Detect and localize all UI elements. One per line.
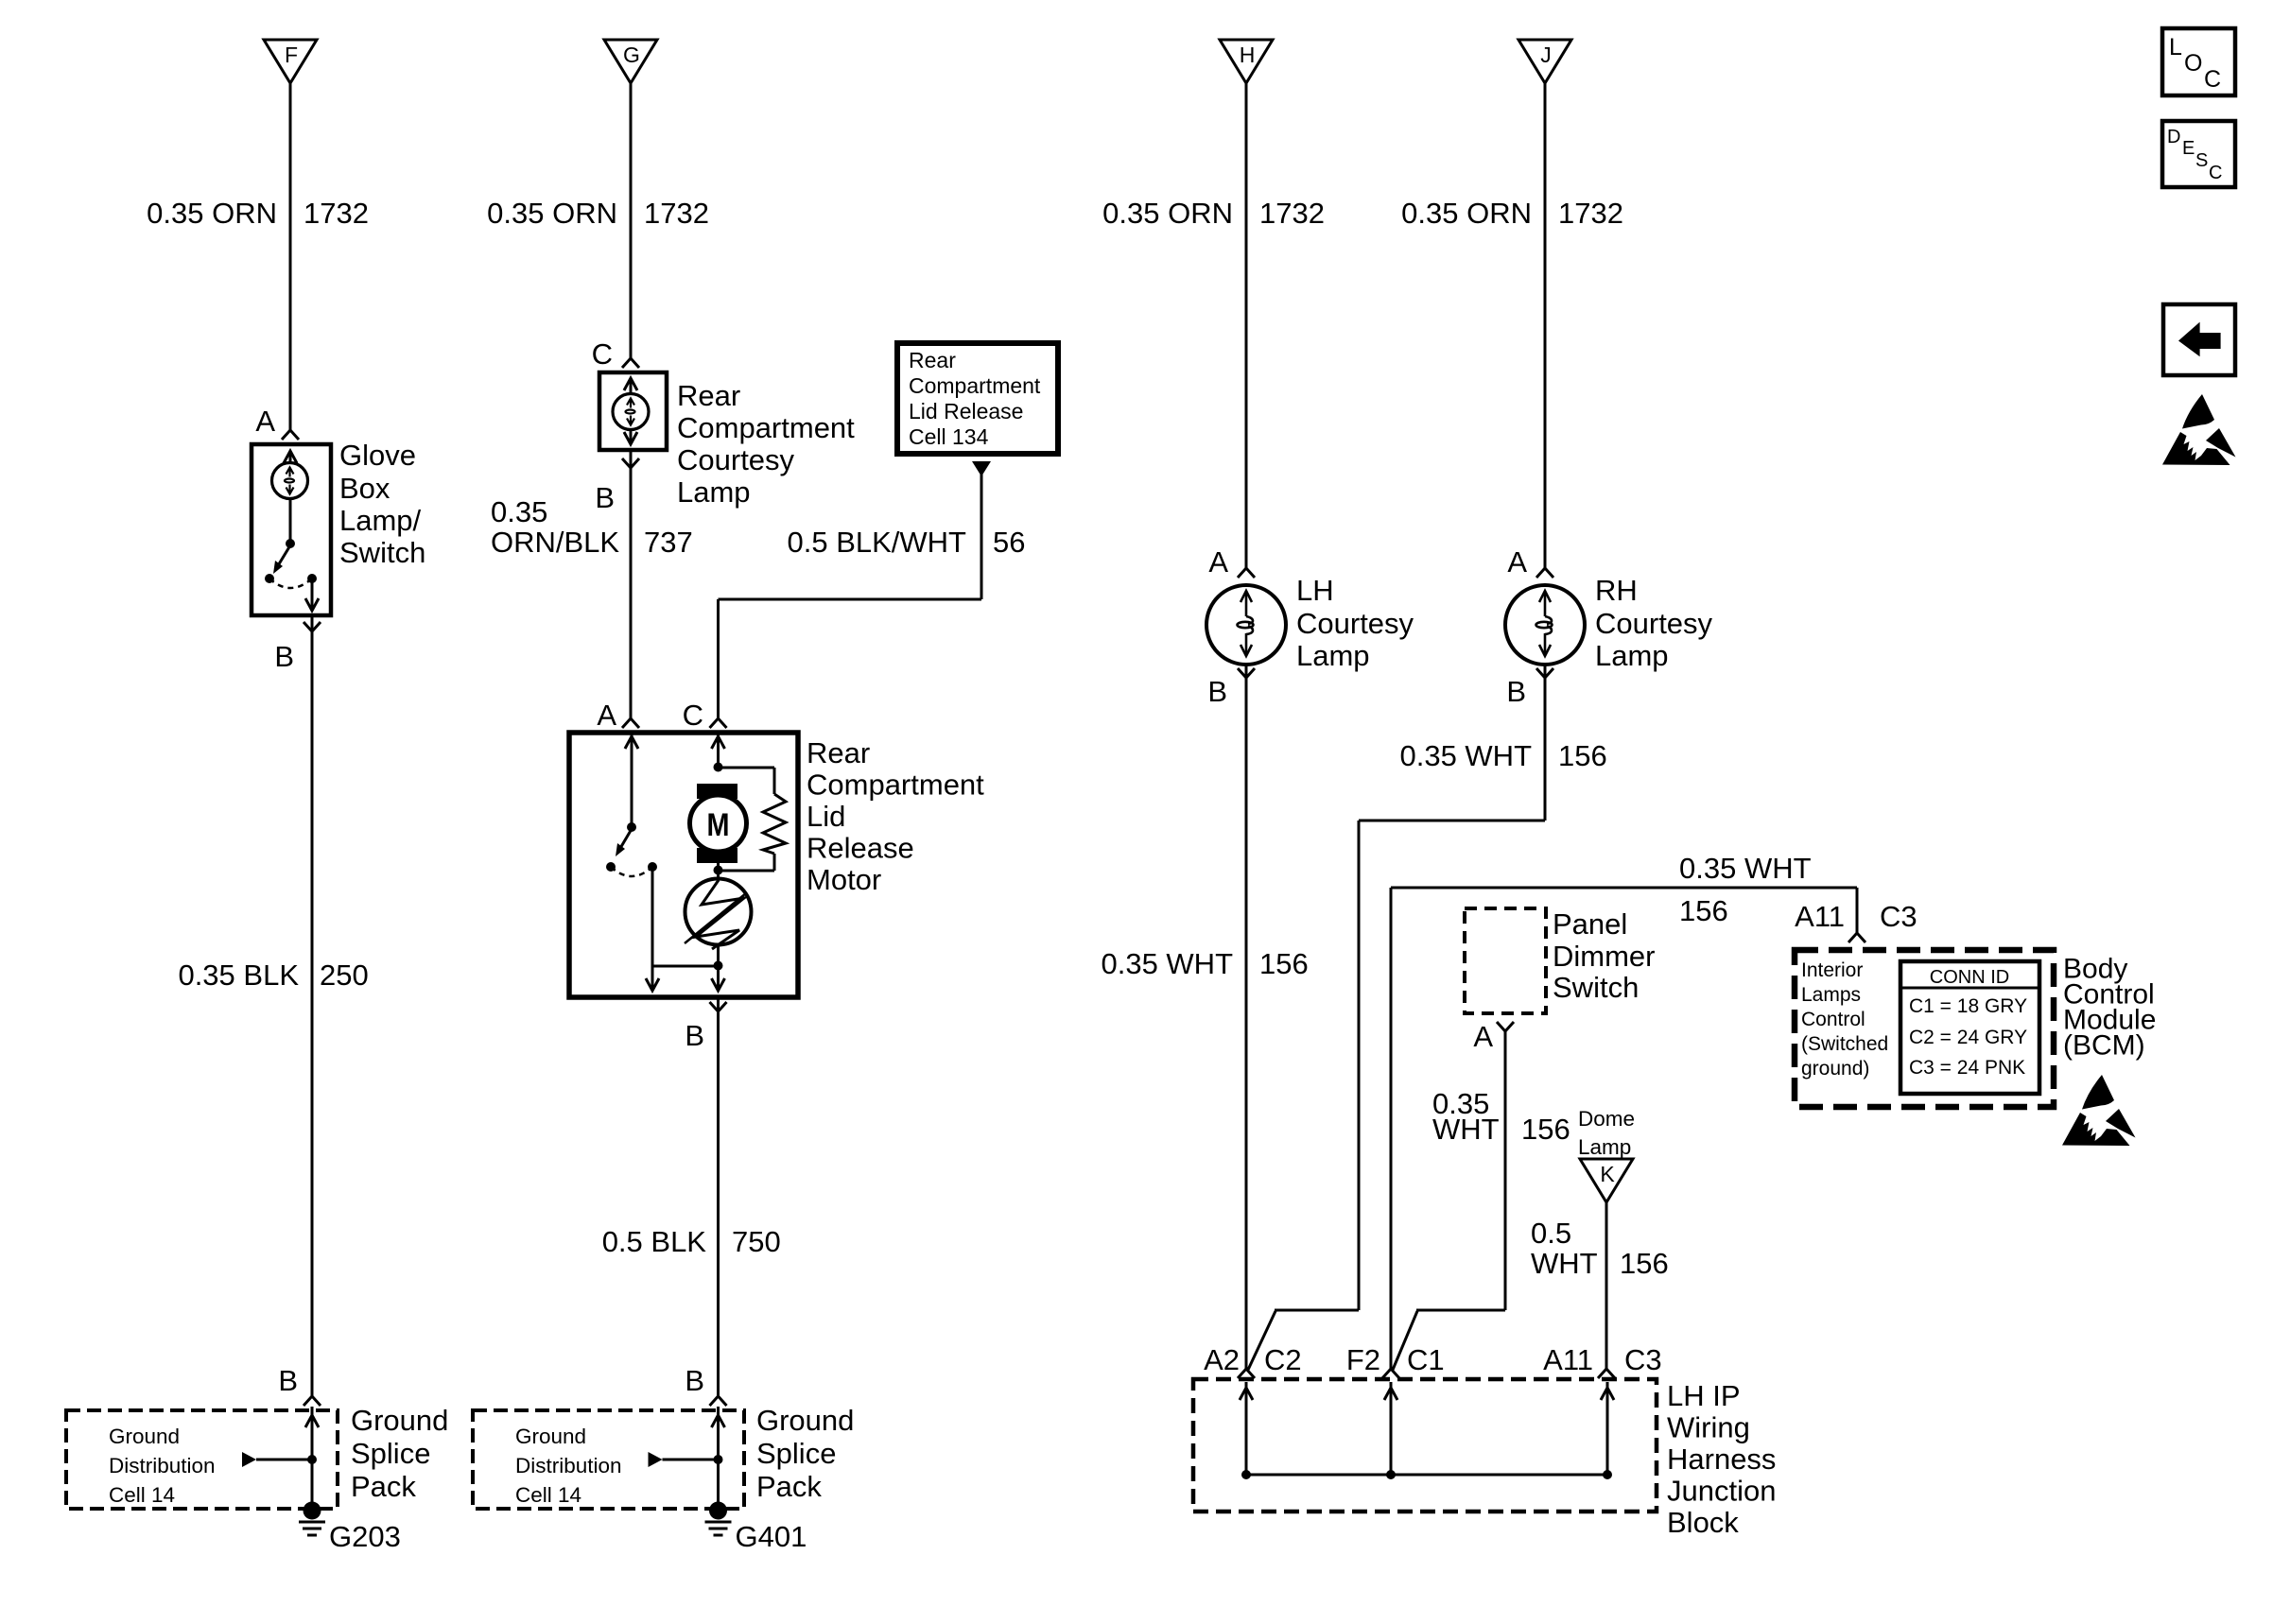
svg-text:B: B xyxy=(685,1364,704,1397)
svg-text:Release: Release xyxy=(807,832,914,865)
svg-text:Glove: Glove xyxy=(339,439,416,472)
svg-text:C3: C3 xyxy=(1880,900,1917,933)
wire label 0.35 WHT 156 xyxy=(1101,947,1308,980)
svg-text:156: 156 xyxy=(1521,1113,1570,1146)
svg-text:156: 156 xyxy=(1679,894,1728,927)
svg-text:C3: C3 xyxy=(1624,1343,1662,1376)
Ground Splice Pack label xyxy=(756,1404,854,1503)
svg-text:Pack: Pack xyxy=(351,1470,416,1503)
svg-text:156: 156 xyxy=(1259,947,1309,980)
panel dimmer switch dashed box xyxy=(1465,908,1546,1013)
rear compartment courtesy lamp box xyxy=(599,372,667,450)
svg-text:C3 = 24 PNK: C3 = 24 PNK xyxy=(1909,1057,2025,1079)
wire label 0.35 ORN 1732 xyxy=(487,197,709,230)
svg-text:A: A xyxy=(1507,545,1527,579)
svg-text:0.5 BLK: 0.5 BLK xyxy=(602,1225,707,1258)
svg-text:Dimmer: Dimmer xyxy=(1553,940,1656,973)
svg-text:0.35 ORN: 0.35 ORN xyxy=(1401,197,1532,230)
rear compartment courtesy lamp bulb xyxy=(613,394,649,430)
svg-text:0.35 ORN: 0.35 ORN xyxy=(487,197,617,230)
glove box internal feed arrow xyxy=(284,451,297,463)
svg-text:G: G xyxy=(623,43,640,67)
ground distribution cell 14 label xyxy=(109,1425,216,1507)
wire G to courtesy lamp pin C (0.35 ORN 1732) xyxy=(622,83,639,368)
svg-text:1732: 1732 xyxy=(304,197,369,230)
wire label 0.35 ORN 1732 xyxy=(1102,197,1325,230)
wire label 0.35 BLK 250 xyxy=(178,959,368,992)
svg-text:Cell 134: Cell 134 xyxy=(909,424,989,449)
wire label 0.35 ORN 1732 xyxy=(147,197,369,230)
svg-text:Dome: Dome xyxy=(1578,1107,1635,1131)
svg-text:Interior: Interior xyxy=(1801,959,1863,981)
back-arrow icon box xyxy=(2163,304,2235,375)
RH courtesy lamp xyxy=(1505,585,1585,665)
svg-text:Motor: Motor xyxy=(807,863,881,896)
svg-text:B: B xyxy=(274,640,294,673)
svg-text:CONN ID: CONN ID xyxy=(1930,967,2009,988)
LOC icon box xyxy=(2162,28,2235,95)
svg-text:(Switched: (Switched xyxy=(1801,1033,1888,1055)
pin B label at splice xyxy=(278,1364,298,1397)
svg-text:B: B xyxy=(685,1019,704,1052)
component label Rear Compartment Lid Release Motor xyxy=(807,736,984,896)
pin A label xyxy=(255,405,275,438)
svg-text:Ground: Ground xyxy=(351,1404,448,1437)
pin C label xyxy=(592,337,613,371)
CONN ID table xyxy=(1900,961,2039,1094)
ground splice pack dashed box (Ground Distribution) xyxy=(66,1410,338,1509)
svg-text:Distribution: Distribution xyxy=(515,1454,622,1477)
svg-text:A2: A2 xyxy=(1204,1343,1240,1376)
svg-text:J: J xyxy=(1540,43,1552,67)
svg-text:B: B xyxy=(1506,675,1526,708)
pin B label at splice xyxy=(685,1364,704,1397)
svg-text:Compartment: Compartment xyxy=(909,373,1041,398)
junction pin labels A2 C2 F2 C1 A11 C3 xyxy=(1204,1343,1662,1376)
DESC icon box xyxy=(2162,121,2235,187)
svg-text:G401: G401 xyxy=(736,1520,807,1553)
connector H (off-page triangle) xyxy=(1220,40,1273,83)
svg-text:G203: G203 xyxy=(329,1520,401,1553)
svg-text:Lamp: Lamp xyxy=(1595,639,1669,672)
svg-text:K: K xyxy=(1600,1162,1615,1186)
component label Panel Dimmer Switch xyxy=(1553,907,1656,1004)
svg-text:C: C xyxy=(683,699,703,732)
motor feed arrow (pin C) xyxy=(712,734,725,772)
svg-text:C: C xyxy=(2209,163,2222,183)
wire into splice with arrow xyxy=(712,1407,725,1505)
wire label 0.5 WHT 156 xyxy=(1531,1217,1669,1280)
svg-text:Lamps: Lamps xyxy=(1801,984,1861,1006)
svg-text:B: B xyxy=(278,1364,298,1397)
svg-text:C2: C2 xyxy=(1264,1343,1302,1376)
svg-text:Rear: Rear xyxy=(909,348,956,372)
LH courtesy lamp xyxy=(1206,585,1286,665)
svg-text:O: O xyxy=(2184,50,2202,77)
courtesy lamp feed arrow xyxy=(624,378,637,393)
svg-text:Lid Release: Lid Release xyxy=(909,399,1023,423)
svg-text:Switch: Switch xyxy=(1553,971,1639,1004)
svg-text:750: 750 xyxy=(732,1225,781,1258)
svg-text:F: F xyxy=(285,43,298,67)
wire label 0.35 ORN 1732 xyxy=(1401,197,1623,230)
svg-text:1732: 1732 xyxy=(1259,197,1325,230)
svg-text:L: L xyxy=(2169,34,2182,60)
wire J to RH lamp pin A (0.35 ORN 1732) xyxy=(1536,83,1553,578)
svg-text:ORN/BLK: ORN/BLK xyxy=(491,526,619,559)
svg-text:Panel: Panel xyxy=(1553,907,1627,941)
svg-text:A: A xyxy=(1208,545,1228,579)
wire from cell 134 to motor pin C (0.5 BLK/WHT 56) xyxy=(710,461,992,728)
svg-text:0.35 ORN: 0.35 ORN xyxy=(147,197,277,230)
svg-text:Ground: Ground xyxy=(109,1425,180,1448)
svg-text:WHT: WHT xyxy=(1531,1247,1598,1280)
wire label 0.35 WHT 156 xyxy=(1399,739,1606,772)
svg-text:Box: Box xyxy=(339,472,390,505)
ground G203 xyxy=(299,1502,401,1554)
svg-text:0.5 BLK/WHT: 0.5 BLK/WHT xyxy=(788,526,967,559)
svg-text:C2 = 24 GRY: C2 = 24 GRY xyxy=(1909,1027,2027,1048)
svg-text:Compartment: Compartment xyxy=(807,769,984,802)
wire F to glove box pin A (0.35 ORN 1732) xyxy=(282,83,299,440)
cell-14 feed arrow and wire xyxy=(649,1452,719,1467)
svg-text:Junction: Junction xyxy=(1667,1475,1776,1508)
pin B label xyxy=(595,458,639,514)
svg-text:Lamp/: Lamp/ xyxy=(339,504,422,537)
pin A label xyxy=(1507,545,1527,579)
wire H to LH lamp pin A (0.35 ORN 1732) xyxy=(1238,83,1255,578)
connector F (off-page triangle) xyxy=(264,40,317,83)
dome lamp label xyxy=(1578,1107,1635,1159)
wire dome lamp to junction C3 (0.5 WHT 156) xyxy=(1598,1202,1615,1378)
svg-text:56: 56 xyxy=(993,526,1025,559)
wire panel dimmer A to junction C1 (0.35 WHT 156) xyxy=(1393,1031,1505,1370)
svg-text:Cell 14: Cell 14 xyxy=(515,1483,581,1507)
svg-text:Rear: Rear xyxy=(807,736,870,769)
wire RH lamp B to junction A2 (0.35 WHT 156) xyxy=(1248,665,1545,1370)
svg-text:H: H xyxy=(1240,43,1256,67)
svg-text:Courtesy: Courtesy xyxy=(1296,607,1414,640)
ground G401 xyxy=(705,1502,807,1554)
svg-text:(BCM): (BCM) xyxy=(2063,1030,2145,1062)
svg-text:B: B xyxy=(595,481,615,514)
motor pins A and C labels xyxy=(597,699,703,732)
wire B to ground (0.35 BLK 250) xyxy=(304,615,321,1406)
glove box switch xyxy=(265,498,319,611)
glove box component label xyxy=(339,439,425,569)
svg-text:Cell 14: Cell 14 xyxy=(109,1483,175,1507)
wire B to motor pin A (0.35 ORN/BLK 737) xyxy=(622,450,639,728)
resistor (motor parallel) xyxy=(714,768,787,875)
component label LH Courtesy Lamp xyxy=(1296,574,1414,672)
svg-text:Splice: Splice xyxy=(351,1437,430,1470)
svg-text:Harness: Harness xyxy=(1667,1443,1776,1476)
body control module dashed box xyxy=(1795,950,2054,1107)
svg-text:Control: Control xyxy=(1801,1009,1865,1030)
svg-text:737: 737 xyxy=(644,526,693,559)
wire label 0.5 BLK/WHT 56 xyxy=(788,526,1026,559)
rear compartment lid release motor box xyxy=(569,733,798,997)
wire motor B to ground (0.5 BLK 750) xyxy=(710,997,727,1406)
svg-text:C1: C1 xyxy=(1407,1343,1445,1376)
svg-text:A11: A11 xyxy=(1795,900,1845,933)
splice junction dot xyxy=(307,1455,317,1464)
courtesy lamp out arrow xyxy=(624,430,637,444)
svg-text:Compartment: Compartment xyxy=(677,411,855,444)
svg-text:S: S xyxy=(2195,150,2208,171)
svg-text:Ground: Ground xyxy=(756,1404,854,1437)
LH IP wiring harness junction block dashed box xyxy=(1193,1379,1657,1512)
thermal protector xyxy=(685,863,752,991)
motor box switch branch (pin A) xyxy=(606,734,719,991)
wire label 0.35 ORN/BLK 737 xyxy=(491,495,693,559)
svg-text:Lamp: Lamp xyxy=(1296,639,1370,672)
connector G (off-page triangle) xyxy=(604,40,657,83)
svg-text:LH: LH xyxy=(1296,574,1334,607)
svg-text:Rear: Rear xyxy=(677,379,740,412)
junction block internal bus xyxy=(1240,1382,1614,1479)
svg-text:WHT: WHT xyxy=(1432,1113,1500,1146)
svg-text:Distribution: Distribution xyxy=(109,1454,216,1477)
svg-text:Courtesy: Courtesy xyxy=(677,443,795,476)
svg-text:Lid: Lid xyxy=(807,800,845,833)
svg-text:Block: Block xyxy=(1667,1506,1739,1539)
svg-text:A: A xyxy=(597,699,616,732)
connector J (off-page triangle) xyxy=(1518,40,1571,83)
svg-text:1732: 1732 xyxy=(644,197,709,230)
motor pin B label xyxy=(685,1002,726,1052)
svg-text:ground): ground) xyxy=(1801,1058,1869,1080)
wire label 0.35 WHT 156 xyxy=(1432,1087,1570,1146)
component label LH IP Wiring Harness Junction Block xyxy=(1667,1379,1776,1539)
motor M xyxy=(690,784,747,863)
wire into splice with arrow xyxy=(305,1407,319,1505)
glove box lamp/switch box xyxy=(252,444,331,615)
glove box lamp xyxy=(272,463,308,499)
ESD sensitivity symbol (BCM) xyxy=(2062,1075,2136,1146)
svg-text:0.35 WHT: 0.35 WHT xyxy=(1101,947,1233,980)
pin A label xyxy=(1473,1020,1514,1053)
svg-text:Courtesy: Courtesy xyxy=(1595,607,1713,640)
svg-text:Lamp: Lamp xyxy=(1578,1135,1631,1159)
svg-text:0.5: 0.5 xyxy=(1531,1217,1571,1250)
svg-text:1732: 1732 xyxy=(1558,197,1623,230)
component label Rear Compartment Courtesy Lamp xyxy=(677,379,855,509)
connector K (dome lamp triangle) xyxy=(1580,1159,1633,1202)
rear compartment lid release cell 134 callout box xyxy=(897,343,1058,454)
wire LH lamp B to junction A2 (0.35 WHT 156) xyxy=(1238,665,1255,1378)
pin A label xyxy=(1208,545,1228,579)
wire label 0.35 WHT / 156 xyxy=(1679,852,1812,927)
svg-text:0.35 WHT: 0.35 WHT xyxy=(1399,739,1532,772)
svg-text:LH IP: LH IP xyxy=(1667,1379,1741,1412)
svg-text:A: A xyxy=(1473,1020,1493,1053)
Ground Splice Pack label xyxy=(351,1404,448,1503)
svg-text:C1 = 18 GRY: C1 = 18 GRY xyxy=(1909,995,2027,1017)
pin B label xyxy=(1506,668,1553,708)
svg-text:Splice: Splice xyxy=(756,1437,836,1470)
svg-text:Lamp: Lamp xyxy=(677,475,751,509)
svg-text:0.35 WHT: 0.35 WHT xyxy=(1679,852,1812,885)
svg-text:C: C xyxy=(2204,66,2221,93)
pin B label xyxy=(274,622,321,673)
svg-text:Pack: Pack xyxy=(756,1470,822,1503)
svg-text:156: 156 xyxy=(1620,1247,1669,1280)
svg-text:0.35 ORN: 0.35 ORN xyxy=(1102,197,1233,230)
BCM pin labels A11 C3 xyxy=(1795,900,1917,933)
ground distribution cell 14 label xyxy=(515,1425,622,1507)
ground splice pack dashed box (Ground Distribution) xyxy=(473,1410,744,1509)
interior lamps control label xyxy=(1801,959,1888,1080)
svg-text:F2: F2 xyxy=(1346,1343,1380,1376)
svg-text:Wiring: Wiring xyxy=(1667,1411,1750,1444)
pin B label xyxy=(1207,668,1255,708)
svg-text:M: M xyxy=(707,807,730,843)
ESD sensitivity symbol (page) xyxy=(2162,394,2236,465)
svg-text:A: A xyxy=(255,405,275,438)
svg-text:D: D xyxy=(2167,127,2180,147)
component label RH Courtesy Lamp xyxy=(1595,574,1713,672)
svg-text:0.35 BLK: 0.35 BLK xyxy=(178,959,299,992)
svg-text:250: 250 xyxy=(320,959,369,992)
svg-text:156: 156 xyxy=(1558,739,1607,772)
svg-text:E: E xyxy=(2182,138,2195,159)
svg-text:A11: A11 xyxy=(1543,1343,1593,1376)
svg-text:RH: RH xyxy=(1595,574,1638,607)
component label Body Control Module (BCM) xyxy=(2063,954,2156,1062)
wire label 0.5 BLK 750 xyxy=(602,1225,781,1258)
wire junction F2 to BCM A11 (0.35 WHT 156) xyxy=(1382,888,1865,1378)
svg-text:0.35: 0.35 xyxy=(491,495,547,528)
cell-14 feed arrow and wire xyxy=(242,1452,312,1467)
splice junction dot xyxy=(714,1455,723,1464)
svg-text:C: C xyxy=(592,337,613,371)
svg-text:Ground: Ground xyxy=(515,1425,586,1448)
svg-text:B: B xyxy=(1207,675,1227,708)
svg-text:Switch: Switch xyxy=(339,536,425,569)
